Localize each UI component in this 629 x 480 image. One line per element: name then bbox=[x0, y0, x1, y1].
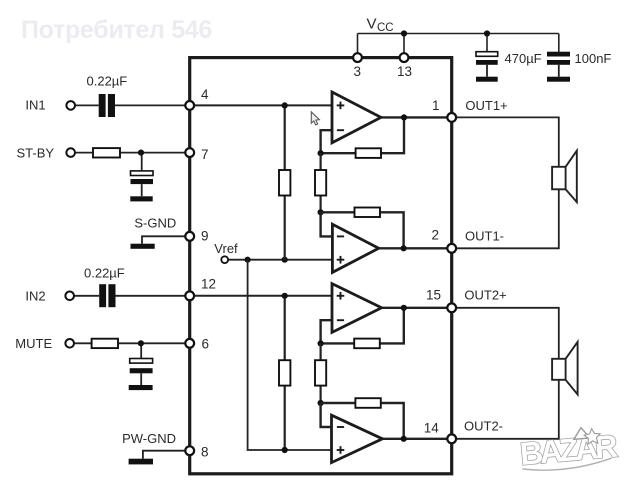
svg-text:15: 15 bbox=[426, 288, 441, 303]
resistor R1 ST-BY bbox=[93, 148, 120, 157]
wire R2 to pin 6 bbox=[118, 342, 186, 344]
pin 2 bbox=[447, 244, 456, 253]
node MUTE junction bbox=[138, 340, 144, 346]
wire R1 to pin 7 bbox=[120, 152, 186, 154]
wire U1a output to pin 1 bbox=[381, 116, 448, 118]
svg-text:Vref: Vref bbox=[214, 241, 238, 256]
wire VCC stub to C3 bbox=[486, 34, 488, 53]
wire IN1 terminal to C1 bbox=[75, 104, 99, 106]
wire MUTE junction down to C6 bbox=[140, 343, 142, 358]
wire VCC stub to pin 3 bbox=[357, 34, 359, 56]
resistor R8 feedback U2a bbox=[354, 339, 380, 349]
svg-text:4: 4 bbox=[201, 87, 209, 102]
wire FB1 feedback net bbox=[321, 117, 404, 153]
node junction U2a inverting bbox=[318, 340, 324, 346]
ground bar PW-GND bbox=[129, 459, 153, 465]
wire PW-GND from pin 8 bbox=[143, 451, 186, 459]
ground bar under C2 bbox=[130, 196, 152, 201]
op-amp IC outline U1 bbox=[190, 58, 452, 474]
svg-text:6: 6 bbox=[202, 337, 210, 352]
wire lower-left resistor chain bbox=[284, 296, 286, 450]
terminal IN1 bbox=[66, 101, 75, 110]
svg-text:100nF: 100nF bbox=[575, 51, 612, 66]
svg-text:9: 9 bbox=[201, 229, 209, 244]
capacitor C2 bottom plate bbox=[131, 179, 154, 184]
resistor R6 feedback U1b bbox=[355, 208, 381, 218]
wire pin 12 to op-amp U2a plus input bbox=[194, 295, 332, 297]
wire C3 stem bbox=[486, 65, 488, 77]
capacitor C4 100nF bottom plate bbox=[547, 60, 570, 65]
label U2a minus bbox=[337, 319, 344, 321]
node U2a output junction bbox=[401, 305, 407, 311]
wire U1a inverting input bbox=[321, 130, 332, 153]
resistor R10 feedback U2b bbox=[355, 398, 380, 408]
wire IN2 terminal to C5 bbox=[74, 295, 100, 297]
svg-text:OUT1-: OUT1- bbox=[465, 229, 504, 244]
node VCC junction at C3 stub bbox=[484, 30, 490, 36]
wire U2a inverting input bbox=[321, 320, 332, 343]
capacitor C1 0.22uF left plate bbox=[99, 94, 106, 117]
svg-text:S-GND: S-GND bbox=[134, 216, 176, 231]
capacitor C4 100nF top plate bbox=[547, 52, 570, 57]
pin 12 bbox=[185, 291, 194, 300]
node VCC junction at pin 13 stub bbox=[401, 30, 407, 36]
wire C4 stem bbox=[558, 65, 560, 77]
label U1a plus bbox=[337, 102, 345, 110]
wire FB3 feedback net bbox=[321, 308, 404, 344]
capacitor C1 0.22uF right plate bbox=[108, 94, 115, 117]
wire upper-left resistor chain bbox=[284, 105, 286, 259]
svg-text:OUT1+: OUT1+ bbox=[465, 98, 507, 113]
pin 8 bbox=[185, 446, 194, 455]
resistor R4 feedback U1a bbox=[356, 148, 381, 158]
wire ST-BY junction down to C2 bbox=[141, 153, 143, 171]
label U2b minus bbox=[337, 426, 344, 428]
wire OUT2+ to speaker LS2 bbox=[456, 308, 559, 439]
wire S-GND from pin 9 bbox=[142, 236, 186, 243]
wire U2a output to pin 15 bbox=[382, 307, 448, 309]
svg-text:IN2: IN2 bbox=[25, 288, 45, 303]
wire VCC rail bbox=[358, 33, 559, 35]
svg-text:1: 1 bbox=[432, 98, 440, 113]
wire VCC stub to pin 13 bbox=[403, 34, 405, 56]
terminal MUTE bbox=[65, 339, 74, 348]
speaker LS1 cone bbox=[566, 151, 577, 202]
svg-text:OUT2+: OUT2+ bbox=[464, 288, 506, 303]
capacitor C5 0.22uF left plate bbox=[99, 284, 106, 307]
node junction U1b inverting bbox=[318, 209, 324, 215]
pin 14 bbox=[447, 434, 456, 443]
wire pin 4 to op-amp U1a plus input bbox=[194, 104, 332, 106]
op-amp U2a bbox=[332, 284, 382, 333]
node junction U2b inverting bbox=[318, 400, 324, 406]
wire C1 to pin 4 bbox=[115, 104, 186, 106]
svg-text:OUT2-: OUT2- bbox=[464, 419, 503, 434]
ground bar under C6 bbox=[129, 385, 153, 390]
svg-text:2: 2 bbox=[432, 227, 440, 242]
capacitor C5 0.22uF right plate bbox=[108, 284, 115, 307]
wire C2 stem bbox=[141, 184, 143, 196]
wire FB2 feedback net bbox=[321, 212, 404, 248]
svg-text:0.22µF: 0.22µF bbox=[84, 266, 125, 281]
pin 4 bbox=[185, 101, 194, 110]
capacitor C6 bottom plate bbox=[130, 368, 153, 373]
label U1b minus bbox=[337, 235, 344, 237]
svg-text:8: 8 bbox=[201, 445, 209, 460]
capacitor C3 470uF top plate bbox=[476, 52, 498, 57]
wire U1b output to pin 2 bbox=[379, 247, 448, 249]
speaker LS1 body bbox=[552, 167, 566, 190]
label U1a minus bbox=[337, 129, 344, 131]
ground bar under C3 bbox=[476, 77, 498, 82]
op-amp U2b bbox=[332, 415, 383, 462]
op-amp U1b bbox=[332, 224, 378, 272]
svg-text:IN1: IN1 bbox=[25, 98, 45, 113]
wire C5 to pin 12 bbox=[116, 295, 187, 297]
wire MUTE terminal to R2 bbox=[74, 342, 92, 344]
svg-text:0.22µF: 0.22µF bbox=[87, 73, 128, 88]
terminal ST-BY bbox=[66, 148, 75, 157]
svg-text:470µF: 470µF bbox=[505, 51, 542, 66]
label U1b plus bbox=[337, 256, 345, 264]
wire OUT1+ to speaker LS1 bbox=[456, 117, 559, 248]
svg-text:ST-BY: ST-BY bbox=[17, 146, 55, 161]
node Vref junction A bbox=[245, 257, 251, 263]
node junction U2b plus net bbox=[282, 447, 288, 453]
node junction pin4 net bbox=[282, 102, 288, 108]
node ST-BY junction bbox=[138, 150, 144, 156]
pin 13 bbox=[400, 53, 409, 62]
terminal IN2 bbox=[65, 292, 74, 301]
node U1a output junction bbox=[401, 114, 407, 120]
svg-text:CC: CC bbox=[377, 22, 394, 34]
wire U1b inverting input bbox=[321, 212, 333, 236]
wire U2b output to pin 14 bbox=[382, 438, 448, 440]
pin 1 bbox=[447, 113, 456, 122]
pin 15 bbox=[447, 303, 456, 312]
node junction pin12 net bbox=[282, 293, 288, 299]
svg-text:PW-GND: PW-GND bbox=[122, 431, 176, 446]
wire C6 stem bbox=[140, 373, 142, 385]
svg-text:14: 14 bbox=[424, 421, 440, 436]
wire FB4 feedback net bbox=[321, 403, 404, 439]
pin 3 bbox=[353, 53, 362, 62]
resistor R5 upper-right bbox=[315, 170, 326, 196]
op-amp U1a bbox=[332, 92, 381, 143]
resistor R7 lower-left bbox=[279, 360, 290, 385]
capacitor C6 top plate bbox=[130, 359, 153, 364]
wire VCC stub to C4 bbox=[558, 34, 560, 53]
wire lower-right resistor chain bbox=[320, 343, 322, 403]
capacitor C2 top plate bbox=[131, 171, 154, 176]
svg-text:7: 7 bbox=[201, 147, 209, 162]
svg-text:13: 13 bbox=[397, 64, 412, 79]
ground bar under C4 bbox=[547, 77, 570, 82]
label U2b plus bbox=[337, 446, 345, 454]
node U1b output junction bbox=[401, 245, 407, 251]
wire Vref to op-amp U1b plus input bbox=[228, 259, 332, 261]
wire upper-right resistor chain bbox=[320, 153, 322, 212]
svg-text:MUTE: MUTE bbox=[15, 336, 52, 351]
node Vref junction B bbox=[282, 257, 288, 263]
terminal Vref bbox=[221, 256, 228, 263]
speaker LS2 cone bbox=[566, 342, 578, 395]
pin 6 bbox=[185, 339, 194, 348]
resistor R9 lower-right bbox=[315, 360, 326, 385]
ground bar S-GND bbox=[131, 244, 155, 249]
svg-text:12: 12 bbox=[201, 277, 216, 292]
pin 9 bbox=[185, 232, 194, 241]
pin 7 bbox=[185, 148, 194, 157]
node junction U1a inverting bbox=[318, 150, 324, 156]
capacitor C3 470uF bottom plate bbox=[476, 60, 498, 65]
svg-text:Потребител 546: Потребител 546 bbox=[21, 16, 212, 44]
svg-text:3: 3 bbox=[354, 64, 362, 79]
resistor R3 upper-left bbox=[279, 170, 290, 196]
svg-text:V: V bbox=[367, 16, 377, 33]
resistor R2 MUTE bbox=[92, 339, 118, 348]
node U2b output junction bbox=[401, 436, 407, 442]
wire ST-BY terminal to R1 bbox=[75, 152, 94, 154]
speaker LS2 body bbox=[552, 359, 566, 380]
wire U2b inverting input bbox=[321, 403, 332, 427]
wire Vref drop to U2b plus input bbox=[248, 260, 332, 450]
label U2a plus bbox=[337, 292, 345, 300]
